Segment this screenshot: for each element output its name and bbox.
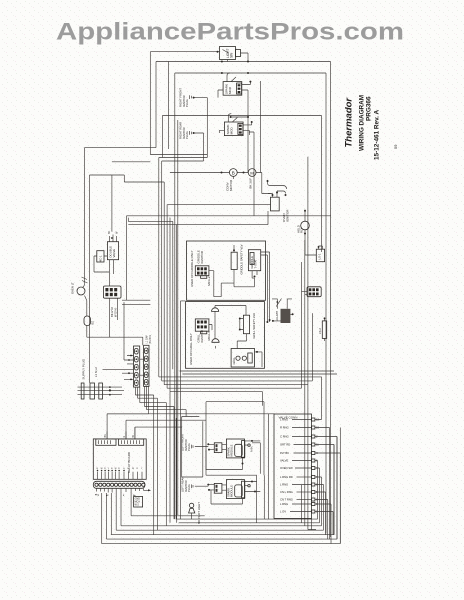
wire valve pin loops bbox=[315, 406, 340, 544]
svg-text:L1 N L2: L1 N L2 bbox=[94, 367, 98, 377]
svg-text:GRILL: GRILL bbox=[232, 356, 236, 364]
svg-text:15-12-461 Rev. A: 15-12-461 Rev. A bbox=[374, 110, 381, 160]
svg-text:AppliancePartsPros.com: AppliancePartsPros.com bbox=[56, 19, 404, 46]
svg-text:Thermador: Thermador bbox=[344, 97, 355, 148]
wire top feed L2 bbox=[85, 62, 331, 538]
svg-text:W: W bbox=[132, 468, 134, 470]
svg-text:USED ON GRIDDLE ONLY: USED ON GRIDDLE ONLY bbox=[190, 250, 194, 287]
svg-text:BK 3UF: BK 3UF bbox=[249, 178, 253, 189]
ignitor E1 oven bbox=[267, 180, 290, 222]
frame second bbox=[162, 116, 321, 516]
svg-text:PRG366: PRG366 bbox=[366, 96, 373, 121]
svg-text:MC-1: MC-1 bbox=[99, 255, 103, 262]
svg-text:M: M bbox=[250, 170, 253, 175]
svg-text:MODULE: MODULE bbox=[230, 485, 234, 497]
buzzer BZ1 bbox=[84, 316, 95, 326]
svg-text:PLUG: PLUG bbox=[185, 99, 189, 107]
svg-text:GRIDDLE SAFETY VLV: GRIDDLE SAFETY VLV bbox=[239, 244, 243, 274]
svg-text:SUPPLY PLUG: SUPPLY PLUG bbox=[82, 358, 86, 379]
spark module U3 left front bbox=[206, 439, 260, 470]
svg-text:GRT RD: GRT RD bbox=[280, 443, 290, 447]
svg-text:T-STAT: T-STAT bbox=[254, 259, 258, 269]
valve V2 grill safety bbox=[237, 313, 256, 349]
svg-text:PLUG: PLUG bbox=[187, 484, 191, 492]
svg-text:MOTOR: MOTOR bbox=[229, 179, 233, 191]
valve connector box bbox=[274, 414, 312, 518]
wire bell drop bbox=[85, 148, 143, 346]
frame outer top bbox=[175, 73, 326, 534]
svg-text:CN L RNG: CN L RNG bbox=[280, 490, 293, 494]
svg-text:MCA-2: MCA-2 bbox=[207, 276, 211, 286]
svg-text:PLT BK: PLT BK bbox=[280, 451, 289, 455]
svg-text:VALVE: VALVE bbox=[280, 459, 288, 463]
svg-text:OVEN LT: OVEN LT bbox=[71, 282, 75, 294]
wire terminal block drop bbox=[109, 269, 117, 338]
svg-text:L RNG: L RNG bbox=[280, 502, 288, 506]
thermostat T1 griddle bbox=[234, 250, 271, 323]
svg-text:MOD: MOD bbox=[228, 86, 232, 94]
wire right-front ignitor loop bbox=[159, 98, 208, 158]
wire spine bundle bbox=[159, 158, 177, 523]
svg-text:BK GY-6: BK GY-6 bbox=[110, 306, 114, 317]
wire right mid verticals bbox=[302, 157, 322, 530]
svg-text:MOD: MOD bbox=[229, 127, 233, 135]
motor B1 bbox=[221, 169, 238, 191]
connector MC-1 bbox=[94, 251, 109, 272]
svg-text:HI-LIMIT: HI-LIMIT bbox=[275, 310, 279, 321]
switch HL1 hi-limit bbox=[272, 299, 294, 324]
lamp pilot light bbox=[189, 502, 201, 524]
wire motor row bbox=[170, 173, 271, 194]
left ignitor section box bbox=[182, 417, 203, 478]
svg-text:VALVE: VALVE bbox=[112, 249, 116, 258]
wire bundle to bottom loops bbox=[154, 392, 174, 535]
wire staircase upper bbox=[159, 371, 337, 406]
spark module U1 right front bbox=[218, 72, 261, 173]
svg-text:W: W bbox=[115, 468, 117, 470]
terminal block TB1 bbox=[103, 286, 121, 317]
ignitor dome D2 bbox=[209, 325, 219, 349]
wire right-rear ignitor loop bbox=[162, 133, 204, 161]
wire connector feeds bbox=[103, 356, 144, 380]
svg-text:C RNG: C RNG bbox=[280, 435, 289, 439]
wire oven ignitor feeds bbox=[128, 205, 270, 225]
svg-text:B: B bbox=[232, 170, 235, 175]
svg-text:GRILL SAFETY VLV: GRILL SAFETY VLV bbox=[252, 313, 256, 339]
svg-text:BK: BK bbox=[108, 230, 111, 234]
lamp bell oven light bbox=[71, 277, 88, 295]
wire connector bottoms bbox=[135, 386, 148, 413]
connector J1 oven control left bbox=[134, 346, 140, 387]
svg-text:LS-2: LS-2 bbox=[318, 328, 322, 334]
svg-text:R RNG: R RNG bbox=[280, 426, 289, 430]
switch LS-2 bbox=[318, 317, 327, 341]
grill section box bbox=[186, 302, 265, 369]
switch LS-1 bbox=[316, 246, 324, 262]
svg-text:WIRING DIAGRAM: WIRING DIAGRAM bbox=[359, 95, 366, 151]
svg-text:L RNG RD: L RNG RD bbox=[280, 475, 293, 479]
svg-text:L OV: L OV bbox=[280, 510, 286, 514]
svg-text:MODULE: MODULE bbox=[230, 444, 234, 456]
svg-text:PLUG: PLUG bbox=[185, 131, 189, 139]
valve V3 double bbox=[107, 230, 118, 268]
motor M1 bbox=[243, 169, 257, 189]
plug P2 right rear ignitor bbox=[179, 122, 195, 139]
svg-text:CN T RNG: CN T RNG bbox=[280, 498, 293, 502]
relay board A1 bbox=[93, 427, 146, 479]
ignitor dome D1 bbox=[212, 306, 247, 339]
svg-text:59: 59 bbox=[393, 144, 398, 149]
svg-text:W-2: W-2 bbox=[135, 504, 140, 507]
svg-text:USED ON GRILL ONLY: USED ON GRILL ONLY bbox=[189, 333, 193, 365]
plug P5 left rear ignitor bbox=[181, 477, 211, 492]
frame third bbox=[181, 301, 186, 519]
switch S1 oven light bbox=[217, 47, 250, 63]
wire relay feeds bbox=[107, 414, 275, 439]
svg-text:A-BK: A-BK bbox=[251, 446, 254, 452]
svg-text:L RNG: L RNG bbox=[280, 483, 288, 487]
connector J2 oven control right bbox=[144, 335, 152, 387]
connector MCA-1 grill bbox=[195, 319, 211, 341]
frame bottom loops bbox=[102, 418, 341, 544]
plug P3 supply bbox=[78, 358, 125, 399]
wire left column mid bbox=[90, 162, 165, 383]
svg-text:OVEN SW: OVEN SW bbox=[280, 466, 293, 470]
legend box bbox=[134, 497, 143, 508]
svg-text:BZ: BZ bbox=[91, 321, 95, 325]
wire double-pair mid bbox=[122, 216, 331, 360]
spark module U4 left rear bbox=[208, 480, 260, 504]
svg-text:W GY-6: W GY-6 bbox=[114, 307, 118, 317]
plug P1 right front ignitor bbox=[179, 88, 195, 107]
wire top feed L1 bbox=[150, 52, 219, 155]
svg-text:R: R bbox=[123, 436, 126, 438]
valve V1 griddle safety bbox=[231, 244, 243, 274]
svg-text:BK: BK bbox=[104, 434, 107, 438]
svg-text:SW: SW bbox=[230, 53, 234, 58]
svg-text:LS-1: LS-1 bbox=[318, 253, 322, 259]
switch S2 grill bbox=[231, 349, 262, 368]
svg-text:NO PILOT LIGHT: NO PILOT LIGHT bbox=[197, 502, 201, 524]
svg-text:IGNITOR: IGNITOR bbox=[285, 209, 289, 222]
spark module U2 right rear bbox=[219, 114, 254, 216]
svg-text:RLY: RLY bbox=[300, 228, 304, 233]
connector MCA-2 griddle bbox=[195, 266, 234, 297]
svg-text:PLUG: PLUG bbox=[187, 443, 191, 451]
svg-text:MCA-1: MCA-1 bbox=[207, 331, 211, 341]
valve conn pin rows bbox=[280, 418, 319, 514]
relay K1 hold bbox=[297, 210, 317, 255]
svg-text:L RNG: L RNG bbox=[280, 418, 288, 422]
griddle section box bbox=[187, 241, 266, 300]
svg-text:IGNITOR: IGNITOR bbox=[200, 250, 204, 263]
wire staircase lower bbox=[107, 395, 186, 417]
plug P4 left front ignitor bbox=[181, 434, 211, 451]
wire valve wrap verticals bbox=[206, 402, 269, 523]
svg-text:W: W bbox=[101, 468, 103, 470]
svg-text:BK W R: BK W R bbox=[149, 335, 152, 344]
connector C2 bbox=[307, 287, 321, 297]
terminal strip TS1 bbox=[93, 481, 151, 497]
